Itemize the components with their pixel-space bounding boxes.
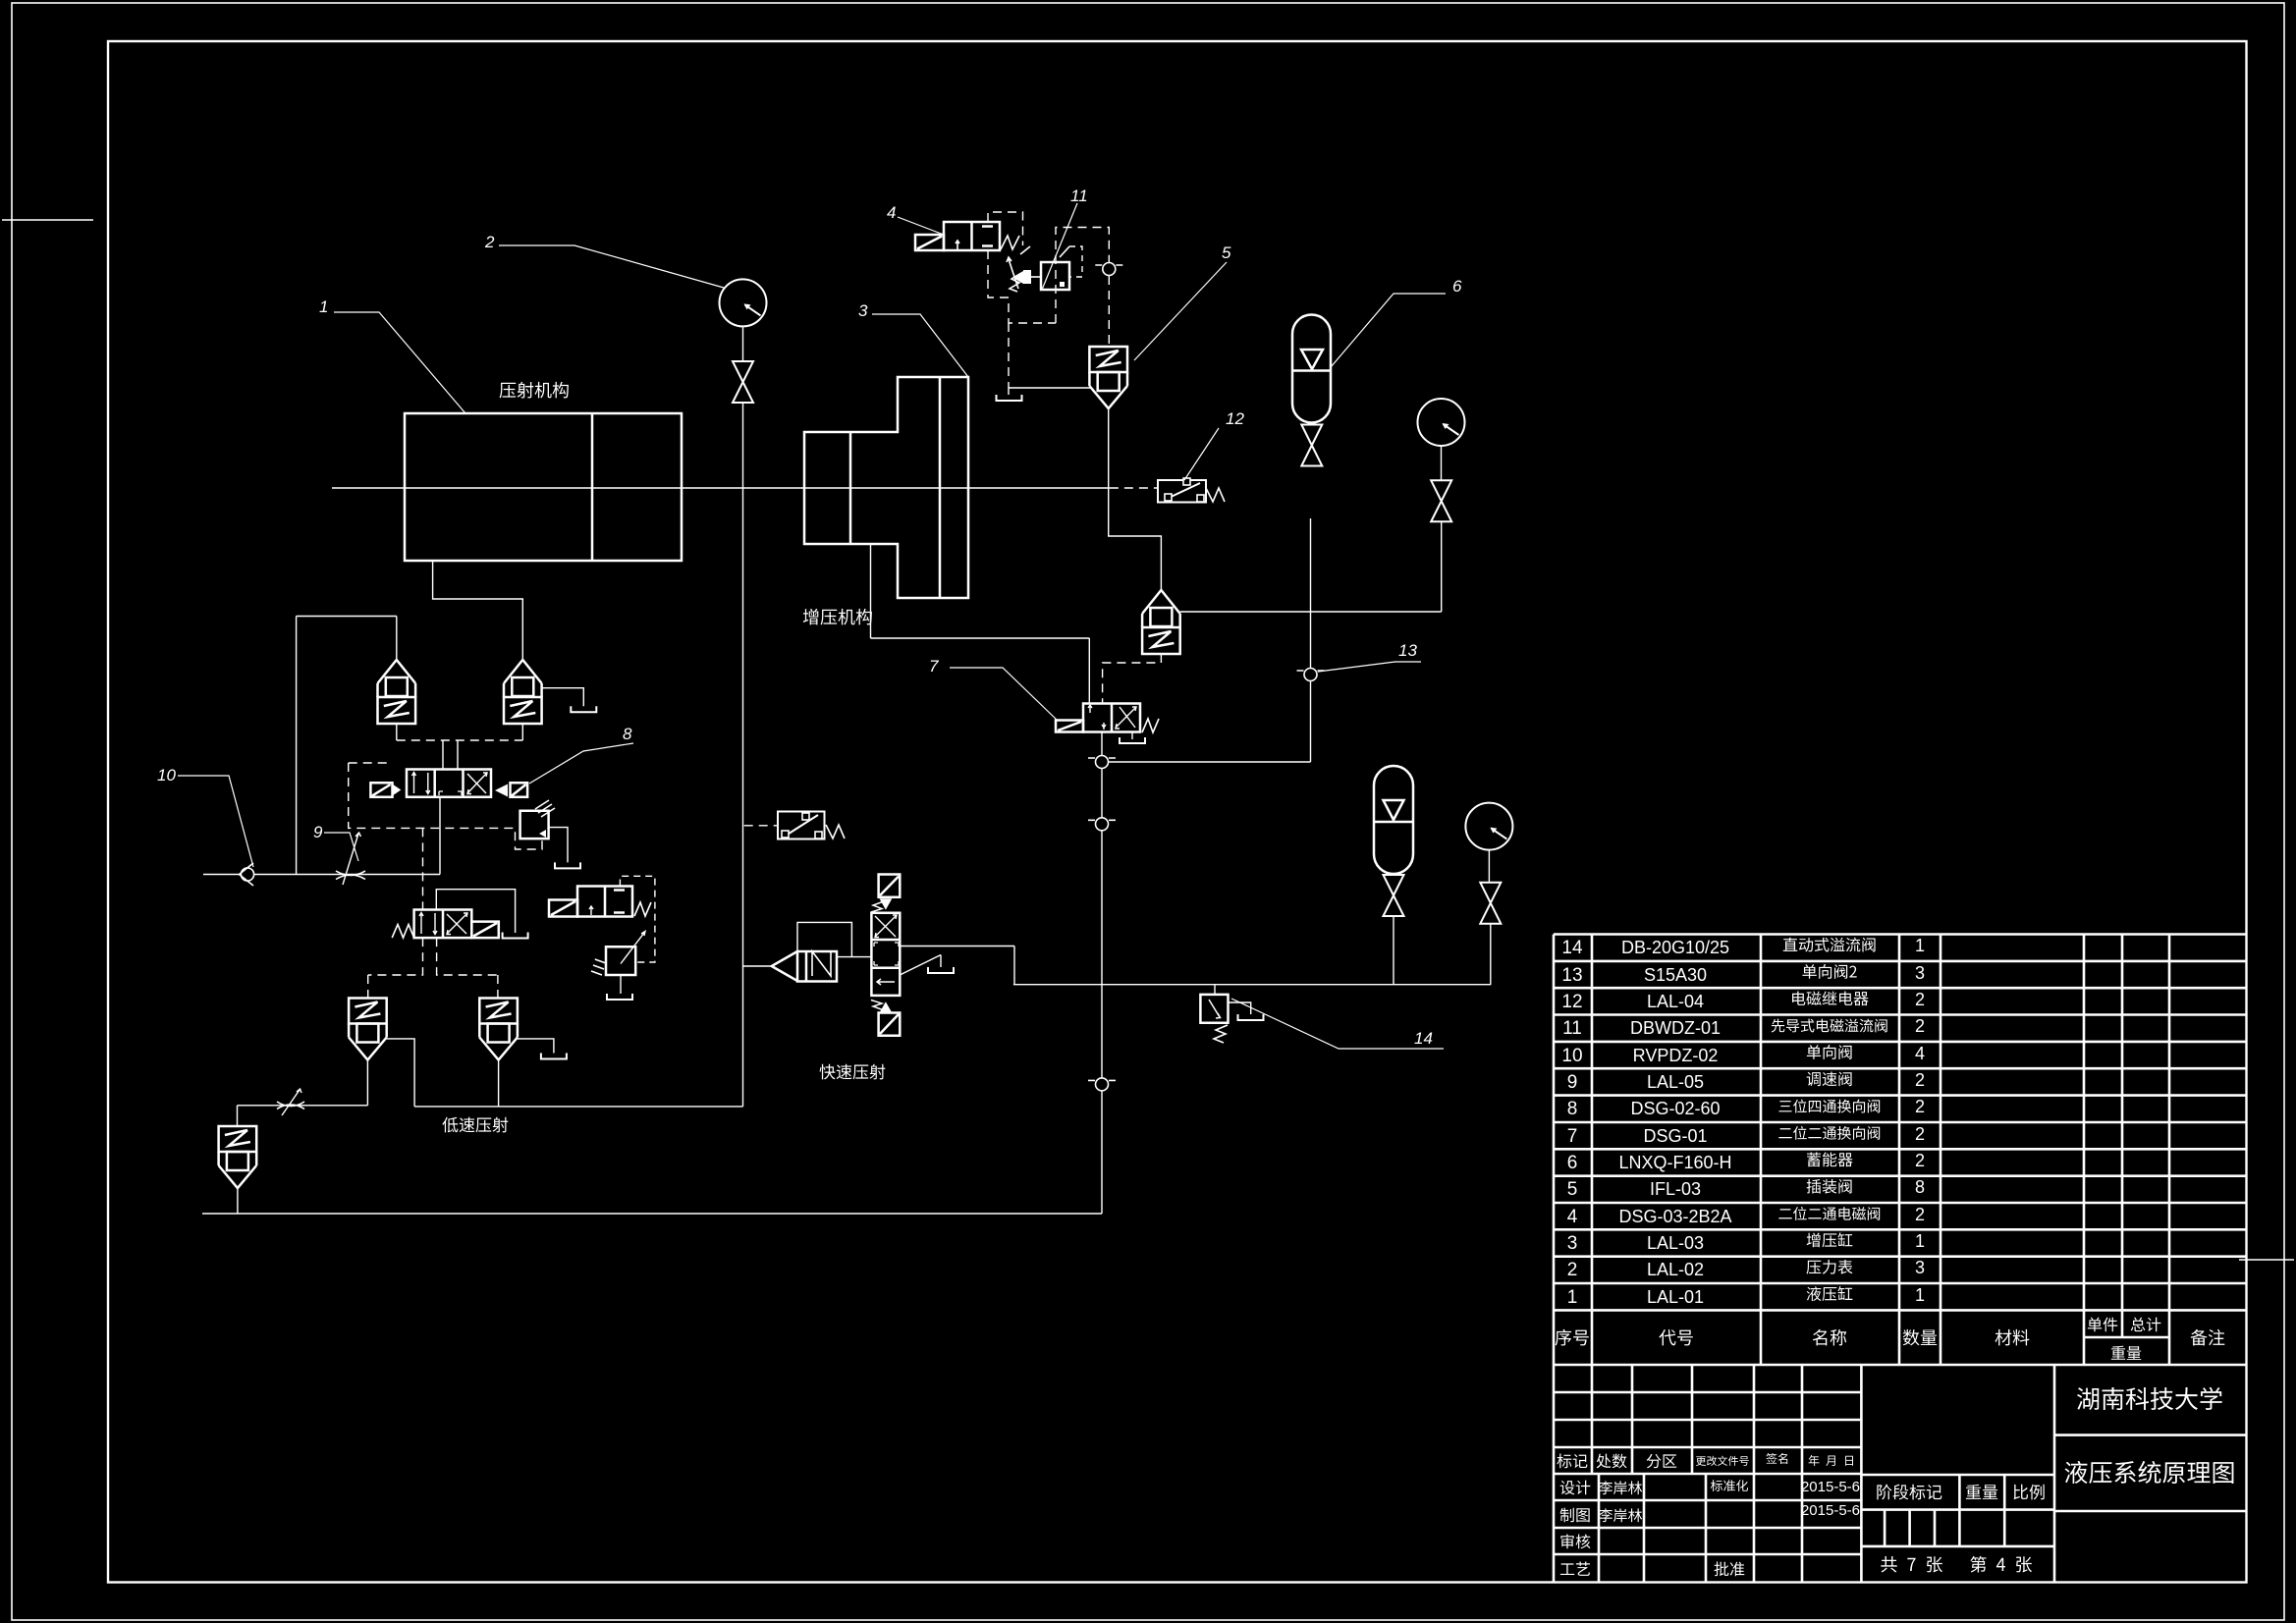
svg-text:2: 2: [1915, 1205, 1925, 1224]
svg-text:4: 4: [887, 203, 896, 222]
svg-text:2015-5-6: 2015-5-6: [1801, 1502, 1860, 1519]
svg-text:8: 8: [1915, 1177, 1925, 1197]
svg-text:1: 1: [1915, 1285, 1925, 1305]
svg-text:1: 1: [1915, 936, 1925, 955]
svg-text:LAL-01: LAL-01: [1647, 1287, 1704, 1307]
svg-text:2: 2: [484, 233, 495, 251]
svg-text:11: 11: [1070, 187, 1088, 205]
svg-text:4: 4: [1915, 1044, 1925, 1063]
svg-text:4: 4: [1567, 1207, 1578, 1227]
svg-text:DB-20G10/25: DB-20G10/25: [1621, 938, 1729, 957]
svg-text:1: 1: [1567, 1287, 1578, 1308]
svg-text:DSG-02-60: DSG-02-60: [1630, 1099, 1720, 1118]
svg-text:2: 2: [1915, 1070, 1925, 1090]
svg-text:5: 5: [1567, 1179, 1578, 1200]
svg-text:3: 3: [1915, 963, 1925, 983]
svg-text:LAL-02: LAL-02: [1647, 1260, 1704, 1279]
svg-text:2: 2: [1915, 1016, 1925, 1036]
svg-text:12: 12: [1226, 409, 1244, 428]
svg-text:8: 8: [623, 725, 632, 743]
svg-text:12: 12: [1561, 992, 1582, 1012]
svg-text:5: 5: [1222, 243, 1231, 262]
svg-text:14: 14: [1561, 938, 1583, 958]
svg-text:1: 1: [1915, 1231, 1925, 1251]
svg-text:RVPDZ-02: RVPDZ-02: [1633, 1046, 1719, 1065]
svg-text:10: 10: [1561, 1046, 1582, 1066]
svg-text:2: 2: [1915, 1124, 1925, 1144]
svg-text:7: 7: [929, 657, 939, 676]
svg-text:11: 11: [1562, 1018, 1582, 1039]
svg-text:2015-5-6: 2015-5-6: [1801, 1479, 1860, 1495]
svg-text:DSG-03-2B2A: DSG-03-2B2A: [1618, 1207, 1731, 1226]
svg-text:DSG-01: DSG-01: [1643, 1126, 1707, 1146]
svg-text:13: 13: [1561, 965, 1582, 986]
svg-text:6: 6: [1567, 1153, 1578, 1173]
svg-text:2: 2: [1915, 1151, 1925, 1170]
svg-text:3: 3: [1915, 1258, 1925, 1277]
svg-text:DBWDZ-01: DBWDZ-01: [1630, 1018, 1721, 1038]
svg-text:1: 1: [319, 298, 328, 316]
svg-text:3: 3: [1567, 1233, 1578, 1254]
svg-text:S15A30: S15A30: [1644, 965, 1707, 985]
svg-text:9: 9: [313, 823, 323, 841]
svg-text:10: 10: [157, 766, 176, 784]
svg-text:8: 8: [1567, 1099, 1578, 1119]
svg-text:2: 2: [1915, 990, 1925, 1009]
svg-text:6: 6: [1452, 277, 1462, 296]
svg-text:14: 14: [1414, 1029, 1433, 1048]
svg-text:2: 2: [1567, 1260, 1578, 1280]
svg-text:2: 2: [1915, 1097, 1925, 1116]
svg-text:7: 7: [1567, 1126, 1578, 1147]
svg-text:3: 3: [858, 301, 868, 320]
svg-text:LAL-03: LAL-03: [1647, 1233, 1704, 1253]
svg-text:LAL-05: LAL-05: [1647, 1072, 1704, 1092]
svg-text:9: 9: [1567, 1072, 1578, 1093]
svg-text:13: 13: [1398, 641, 1417, 660]
svg-text:LAL-04: LAL-04: [1647, 992, 1704, 1011]
svg-text:IFL-03: IFL-03: [1650, 1179, 1701, 1199]
svg-text:LNXQ-F160-H: LNXQ-F160-H: [1618, 1153, 1731, 1172]
